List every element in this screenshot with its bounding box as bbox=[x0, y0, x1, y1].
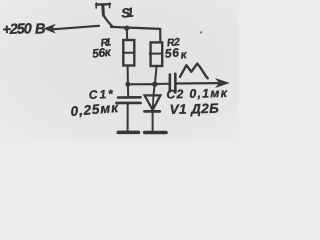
switch S1 symbol: top bar bbox=[96, 3, 110, 6]
wire: C1 top lead bbox=[127, 84, 129, 96]
ground bar under V1 bbox=[145, 131, 166, 135]
wire: R2 bottom lead bbox=[155, 66, 157, 84]
diode V1 triangle bbox=[145, 95, 161, 109]
wire: V1 bottom lead bbox=[152, 113, 154, 131]
AC signal squiggle symbol bbox=[180, 64, 208, 79]
resistor R2 middle bar bbox=[150, 53, 163, 55]
node: junction bottom left (R1/C1) bbox=[125, 82, 130, 87]
wire: C1 bottom lead bbox=[127, 104, 129, 132]
capacitor C2 left plate bbox=[169, 75, 172, 92]
switch S1 symbol: bar end serifs bbox=[96, 3, 110, 8]
resistor R1 body bbox=[123, 40, 134, 66]
arrowhead of +250V feed (points left) bbox=[44, 25, 55, 33]
resistor R1 middle bar bbox=[123, 52, 135, 54]
wire: top rail bbox=[111, 27, 160, 29]
ground bar under C1 bbox=[118, 131, 138, 135]
diode V1 cathode bar bbox=[145, 110, 160, 113]
wire: bottom bus between R1 node and R2/V1 node bbox=[128, 83, 155, 85]
diode V1 inner lead through triangle bbox=[152, 96, 155, 109]
capacitor C1 top plate bbox=[118, 96, 141, 99]
wire: R1 bottom lead bbox=[127, 66, 129, 85]
wire: V1 top lead bbox=[154, 84, 155, 95]
wire: R2 top corner lead from rail bbox=[159, 29, 161, 43]
node: junction bottom right (R2/V1/C2) bbox=[152, 81, 158, 87]
wire: R1 top lead bbox=[126, 29, 128, 41]
wire: +250V feed arrow shaft bbox=[53, 26, 100, 30]
wire: node to C2 bbox=[155, 83, 169, 85]
arrowhead of output (points right) bbox=[217, 79, 229, 87]
switch S1 symbol: lever to rail bbox=[103, 15, 112, 27]
stray scan speckle bbox=[200, 32, 202, 34]
capacitor C1 bottom plate bbox=[117, 102, 141, 105]
wire: output line from C2 bbox=[177, 82, 218, 85]
resistor R2 body bbox=[151, 42, 163, 66]
switch S1 symbol: stem bbox=[101, 5, 105, 15]
capacitor C2 right plate bbox=[174, 74, 177, 93]
node: junction top rail / R1 bbox=[124, 26, 129, 31]
